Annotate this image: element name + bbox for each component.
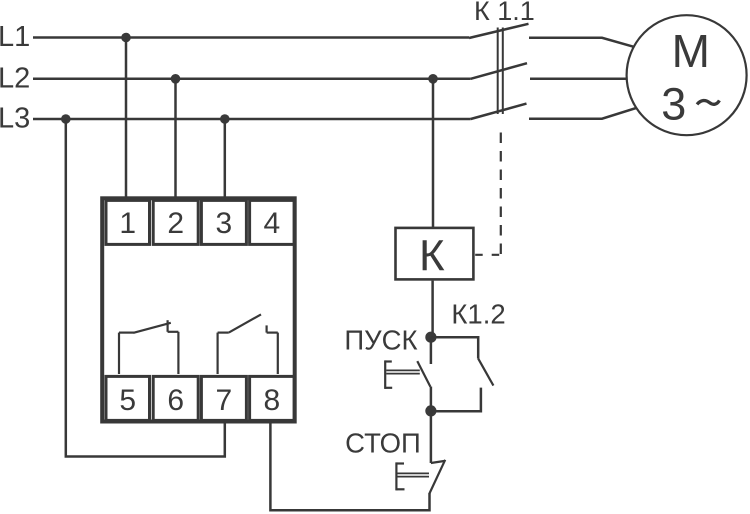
node lower junction xyxy=(425,405,436,416)
junction on L3 to terminal 3 xyxy=(220,114,230,124)
svg-text:7: 7 xyxy=(216,384,233,417)
motor M circle xyxy=(627,15,747,135)
node start junction xyxy=(425,332,436,343)
wire L2 rail xyxy=(33,78,471,81)
svg-text:5: 5 xyxy=(119,384,136,417)
button PUSK blade xyxy=(417,361,430,387)
relay contact 7-8 open xyxy=(218,314,278,374)
button STOP link lines xyxy=(397,473,429,476)
terminal 6 xyxy=(153,376,198,420)
contact K1.2 blade xyxy=(478,359,493,386)
svg-text:1: 1 xyxy=(119,207,136,240)
svg-text:L3: L3 xyxy=(0,103,30,135)
coil K box xyxy=(396,228,474,280)
contactor K1.1 linkage bar xyxy=(498,28,503,115)
svg-text:L1: L1 xyxy=(0,21,30,53)
contactor K1.1 pole L2 blade xyxy=(471,63,527,79)
terminal 7 xyxy=(201,376,246,420)
wire coil to start node xyxy=(431,281,434,334)
svg-text:СТОП: СТОП xyxy=(345,427,421,458)
svg-text:L2: L2 xyxy=(0,63,30,95)
svg-text:М: М xyxy=(672,25,710,77)
svg-text:4: 4 xyxy=(264,207,281,240)
wire L3 to terminal 3 xyxy=(224,119,227,198)
wire contactor to motor phase 1 xyxy=(529,38,634,47)
wire PUSK bottom xyxy=(430,387,433,411)
terminal 1 xyxy=(106,200,150,244)
junction on L2 xyxy=(171,74,181,84)
svg-text:К 1.1: К 1.1 xyxy=(474,0,535,26)
junction on L3 left xyxy=(61,114,71,124)
relay U1 outer box xyxy=(102,198,295,421)
wire contactor to motor phase 3 xyxy=(529,108,636,119)
contact K1.2 top lead xyxy=(431,337,478,358)
dashed linkage to coil xyxy=(500,133,502,255)
wire contactor to motor phase 2 xyxy=(530,78,626,81)
wire lower node down xyxy=(430,411,433,463)
wire L3 down left side xyxy=(66,119,225,457)
wire start node down xyxy=(430,337,433,364)
contact K1.2 bottom lead xyxy=(431,388,481,412)
svg-text:3: 3 xyxy=(216,207,233,240)
button PUSK link lines xyxy=(386,370,420,373)
svg-text:2: 2 xyxy=(167,207,184,240)
terminal 5 xyxy=(106,376,150,420)
svg-text:К1.2: К1.2 xyxy=(451,299,505,330)
terminal 2 xyxy=(153,200,198,244)
svg-text:К: К xyxy=(419,232,445,281)
contactor K1.1 pole L3 blade xyxy=(471,104,527,119)
contactor K1.1 pole L1 blade xyxy=(469,24,529,38)
wire L1 to terminal 1 xyxy=(125,38,128,199)
terminal 8 xyxy=(250,376,295,420)
button STOP fixed tick xyxy=(431,461,445,463)
junction on L1 xyxy=(121,33,131,43)
button STOP blade xyxy=(430,460,446,494)
button PUSK actuator xyxy=(385,360,392,389)
wire L2 to coil K xyxy=(432,79,435,228)
svg-text:6: 6 xyxy=(167,384,184,417)
wire L3 rail xyxy=(33,118,471,121)
terminal 4 xyxy=(250,200,295,244)
wire L2 to terminal 2 xyxy=(174,79,177,198)
junction on L2 to coil xyxy=(428,74,438,84)
terminal 3 xyxy=(201,200,246,244)
svg-text:ПУСК: ПУСК xyxy=(344,324,417,355)
motor tilde xyxy=(697,100,719,104)
svg-text:3: 3 xyxy=(661,79,686,130)
button STOP actuator xyxy=(396,462,404,490)
svg-text:8: 8 xyxy=(264,384,281,417)
wire L1 rail xyxy=(33,36,469,39)
wire STOP to terminal 8 xyxy=(270,421,429,510)
relay contact 5-6 closed xyxy=(119,320,178,374)
